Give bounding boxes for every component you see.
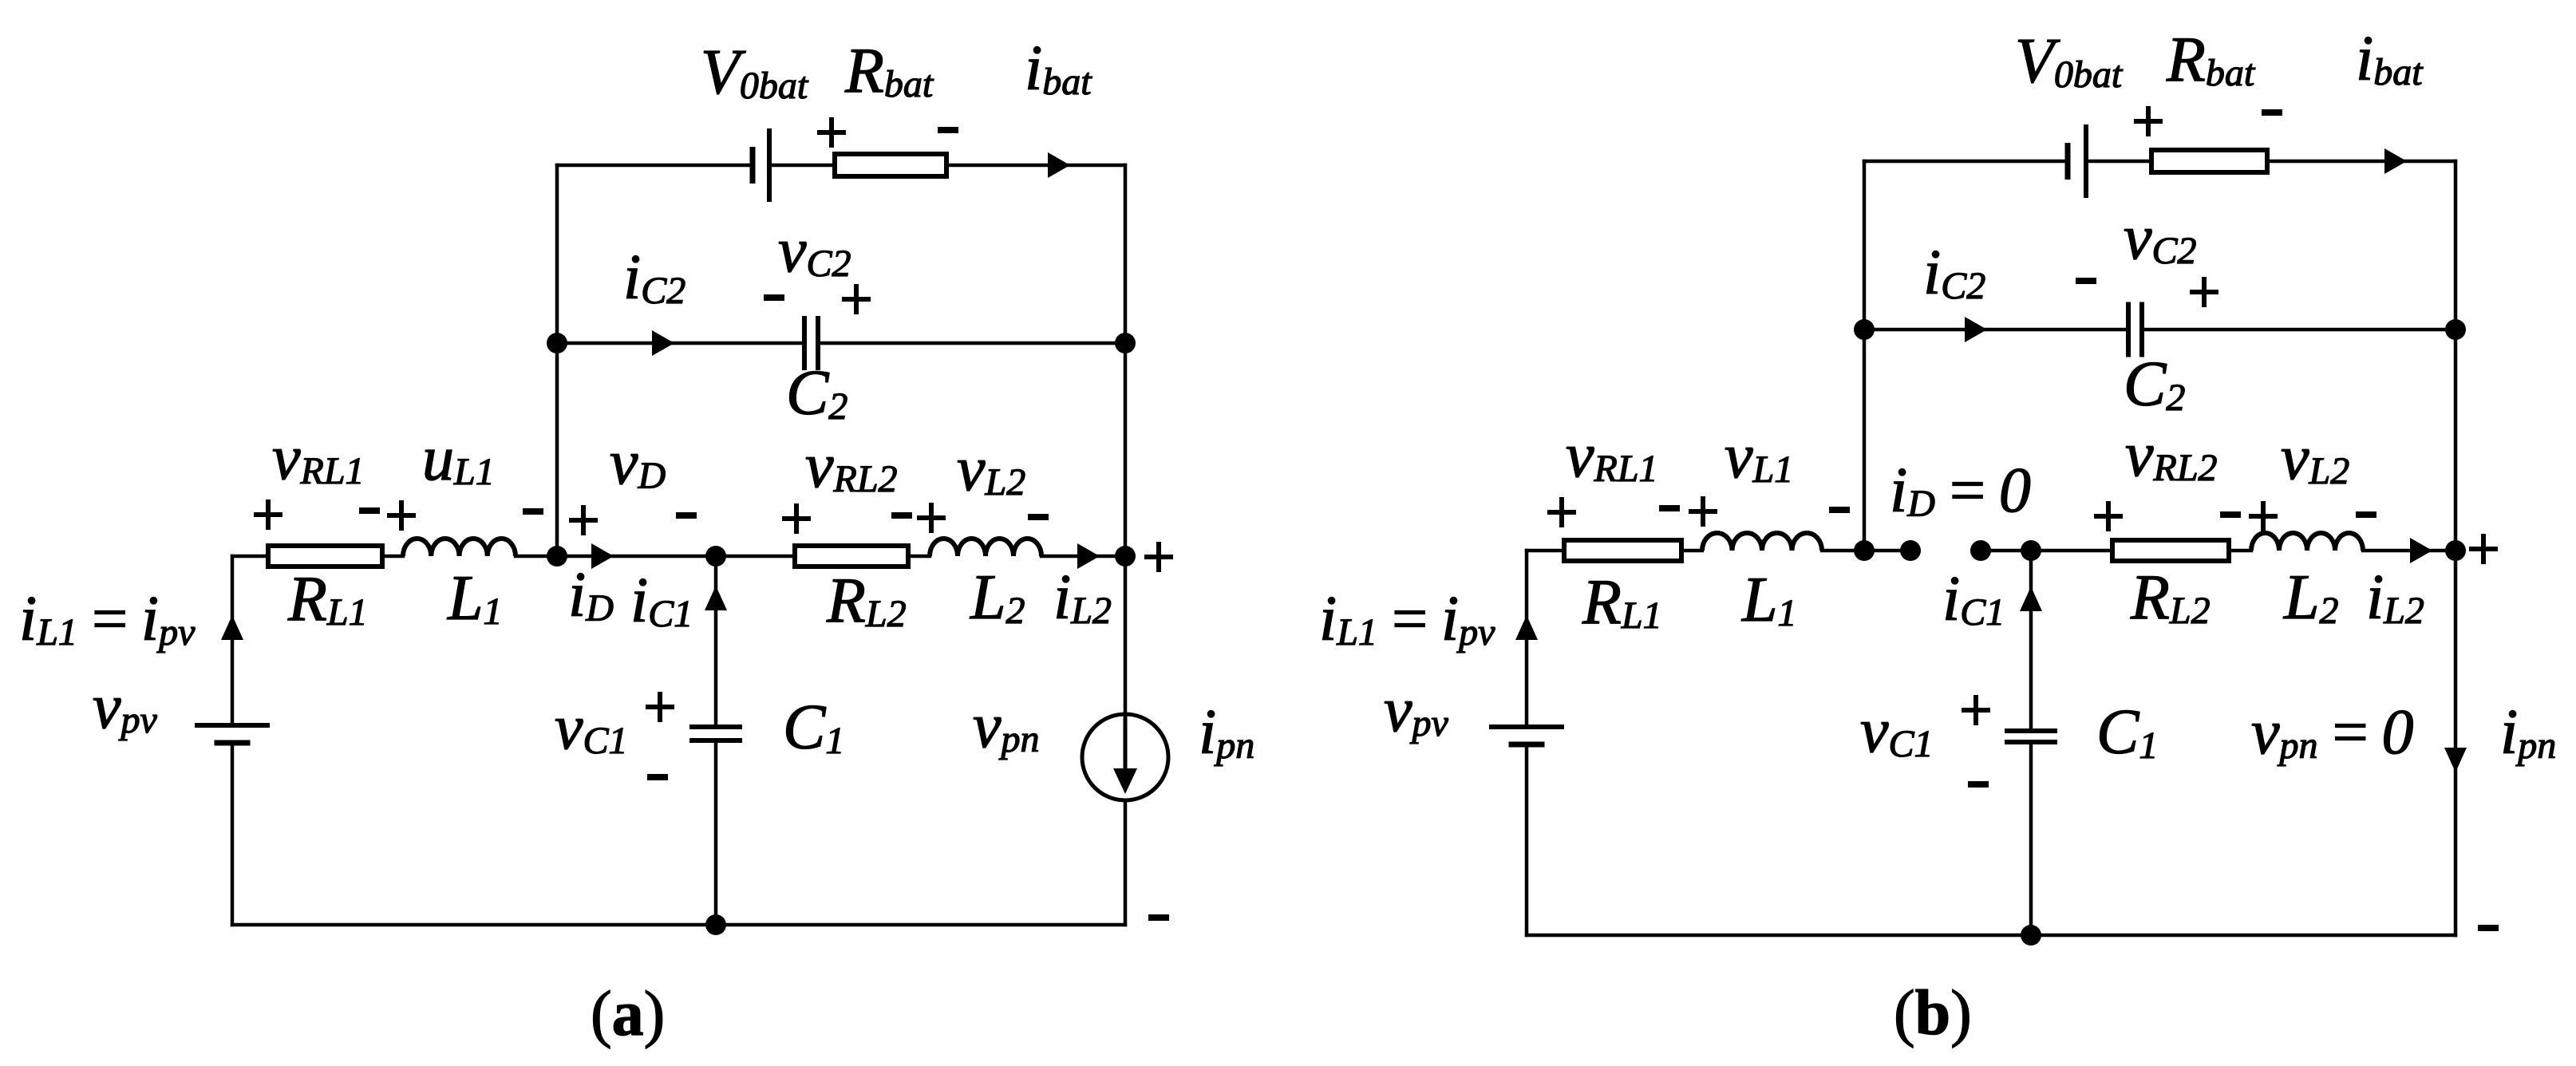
resistor RL2 (b) — [2112, 540, 2229, 561]
resistor RL1 (b) — [1564, 540, 1681, 561]
polarity + vRL1 + (b) — [1547, 497, 1576, 527]
node (b) C2 row right junction — [2445, 319, 2466, 340]
polarity + vRL2 + (a) — [782, 503, 811, 534]
current arrow iD (a) — [591, 543, 614, 569]
wire (b) main row from PV — [1525, 549, 1566, 553]
wire (a) main row RL1 to L1 — [381, 555, 405, 559]
node (a) diode node — [547, 546, 567, 567]
polarity - vRL2 - (a) — [891, 512, 912, 519]
node (a) main row right junction — [1115, 546, 1136, 567]
wire (b) right vertical — [2454, 160, 2458, 937]
wire (a) main row L1 to RL2 — [514, 555, 796, 559]
polarity - vRL1 - (a) — [359, 507, 380, 514]
resistor RL1 (a) — [268, 546, 382, 567]
wire (b) main row RL2 to L2 — [2227, 549, 2253, 553]
polarity + vC2 + (b) — [2190, 277, 2218, 307]
node (b) bottom junction — [2021, 925, 2041, 946]
node (a) C2 row right junction — [1115, 333, 1136, 353]
current arrow iL1=ipv (a) — [221, 615, 243, 640]
resistor RL2 (a) — [795, 546, 908, 567]
battery V0bat (b) — [2065, 143, 2071, 180]
polarity + vC2 + (a) — [842, 284, 871, 314]
polarity - vC1 - (b) — [1968, 781, 1989, 788]
wire (b) main row RL1 to L1 — [1680, 549, 1704, 553]
polarity + vpn + (b) — [2469, 534, 2498, 564]
polarity + vpn + (a) — [1144, 542, 1173, 572]
wire (a) main row RL2 to L2 — [907, 555, 931, 559]
inductor L2 (a) — [930, 539, 1041, 556]
node (b) diode anode junction — [1854, 540, 1875, 561]
polarity - vpn - (b) — [2478, 925, 2499, 931]
wire (a) right vertical upper — [1124, 164, 1128, 717]
inductor L1 (a) — [403, 539, 516, 556]
capacitor C2 (a) — [802, 316, 807, 370]
wire (a) PV branch lower — [231, 741, 235, 926]
polarity - Rbat - (a) — [938, 127, 958, 133]
wire (b) bottom rail — [1525, 934, 2457, 938]
current arrow iL2 (b) — [2410, 538, 2432, 563]
current arrow iL2 (a) — [1077, 543, 1100, 569]
polarity - uL1 - (a) — [523, 508, 543, 515]
polarity - vL1 - (b) — [1829, 507, 1850, 513]
wire (a) C2 row left segment — [555, 342, 806, 345]
wire (b) main row L1 to open switch — [1820, 549, 1912, 553]
wire (a) main row L2 to right node — [1040, 555, 1127, 559]
resistor Rbat (a) — [835, 154, 946, 176]
battery V0bat (a) — [750, 147, 756, 184]
current arrow iC1 (a) — [705, 586, 727, 610]
polarity + vD + (a) — [569, 505, 598, 535]
polarity + vRL1 + (a) — [254, 499, 282, 530]
node (a) bottom junction — [705, 914, 726, 935]
wire (b) left vertical of battery loop — [1863, 160, 1867, 552]
wire (b) C2 row right segment — [2140, 328, 2457, 332]
wire (a) C2 row right segment — [816, 342, 1127, 345]
wire (a) top right segment — [945, 164, 1127, 168]
polarity + vRL2 + (b) — [2094, 501, 2123, 531]
battery vpv source (b) — [1489, 724, 1564, 729]
wire (b) C1 branch upper — [2029, 549, 2033, 732]
wire (a) PV branch upper — [231, 555, 235, 727]
polarity - vC1 - (a) — [647, 774, 668, 780]
polarity + vC1 + (b) — [1962, 695, 1990, 725]
polarity - vpn - (a) — [1148, 914, 1169, 921]
node (b) C1 top junction — [2021, 540, 2041, 561]
node (a) C1 top junction — [705, 546, 726, 567]
polarity - vC2 - (a) — [764, 294, 784, 301]
polarity + vL1 + (b) — [1689, 496, 1717, 527]
wire (a) left vertical of battery loop — [555, 164, 559, 558]
battery vpv source (a) — [195, 723, 270, 728]
polarity + uL1 + (a) — [387, 500, 416, 531]
wire (a) right vertical lower — [1124, 799, 1128, 926]
current arrow iC2 (b) — [1965, 317, 1987, 342]
polarity + vC1 + (a) — [646, 692, 674, 722]
svg-text:(a): (a) — [591, 979, 665, 1049]
capacitor C2 (b) — [2126, 302, 2131, 357]
polarity - vC2 - (b) — [2076, 278, 2096, 284]
polarity - vRL2 - (b) — [2220, 511, 2241, 518]
wire (a) C1 branch lower — [714, 739, 718, 926]
wire (b) C1 branch lower — [2029, 740, 2033, 937]
current arrow iC1 (b) — [2020, 586, 2042, 611]
polarity + vL2 + (b) — [2249, 501, 2278, 531]
polarity - vL2 - (b) — [2356, 511, 2376, 518]
polarity + V0bat + (b) — [2134, 106, 2163, 136]
current arrow iL1=ipv (b) — [1515, 615, 1538, 640]
polarity - vD - (a) — [676, 512, 697, 519]
wire (a) top left segment — [555, 164, 754, 168]
svg-text:(b): (b) — [1894, 978, 1972, 1048]
wire (b) top right segment — [2266, 160, 2457, 164]
polarity - vL2 - (a) — [1028, 514, 1049, 520]
wire (a) main row from PV — [231, 555, 270, 559]
wire (b) top middle segment — [2084, 160, 2153, 164]
current arrow iC2 (a) — [652, 330, 674, 356]
node (b) open switch left terminal — [1900, 540, 1921, 561]
wire (b) PV branch upper — [1525, 549, 1529, 728]
polarity - Rbat - (b) — [2262, 109, 2282, 116]
svg-text:vpn = 0: vpn = 0 — [2251, 697, 2414, 768]
current arrow ibat (b) — [2384, 148, 2407, 174]
polarity - vRL1 - (b) — [1659, 505, 1680, 511]
inductor L2 (b) — [2251, 533, 2363, 551]
wire (b) top left segment — [1863, 160, 2069, 164]
wire (a) C1 branch upper — [714, 555, 718, 728]
resistor Rbat (b) — [2151, 150, 2267, 172]
polarity + vL2 + (a) — [917, 503, 946, 533]
current arrow ipn (b) — [2444, 748, 2467, 772]
wire (b) main row switch to RL2 — [1979, 549, 2114, 553]
polarity + V0bat + (a) — [817, 117, 846, 148]
capacitor C1 (a) — [689, 724, 742, 729]
wire (a) top middle segment — [768, 164, 836, 168]
wire (a) bottom rail — [231, 923, 1127, 927]
node (b) main row right junction — [2445, 540, 2466, 561]
wire (b) C2 row left segment — [1863, 328, 2130, 332]
current source ipn (a) — [1082, 714, 1168, 800]
inductor L1 (b) — [1702, 533, 1822, 551]
current arrow ibat (a) — [1048, 152, 1070, 178]
wire (b) PV branch lower — [1525, 743, 1529, 937]
node (a) C2 row left junction — [547, 333, 567, 353]
capacitor C1 (b) — [2005, 728, 2057, 733]
wire (b) main row L2 to right node — [2361, 549, 2457, 553]
node (b) open switch right terminal — [1970, 540, 1991, 561]
node (b) C2 row left junction — [1854, 319, 1875, 340]
